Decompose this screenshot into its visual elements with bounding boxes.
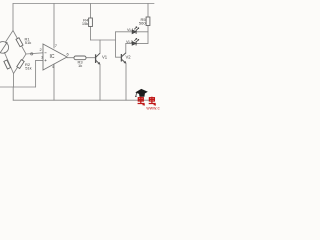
wire top supply rail [13,3,154,5]
wire bridge bottom drop [13,74,15,88]
wire bridge upper-right edge [13,31,26,55]
wire VL1 right lead [136,31,148,33]
resistor RP lower-left [4,60,11,69]
LED VL2 [132,38,139,45]
transistor V2 [121,53,126,64]
svg-text:V2: V2 [126,55,132,60]
label R1 value [25,36,32,45]
resistor R4 [89,18,93,27]
wire bottom ground rail [13,99,149,101]
label R2 value [25,62,32,71]
svg-text:3: 3 [41,55,44,60]
wire V2 base drop [116,32,122,57]
svg-text:15k: 15k [82,21,88,26]
wire R3 to V1 base [86,57,96,59]
wire bridge lower-right edge [14,54,27,74]
watermark red character 1 [138,97,145,105]
svg-text:51k: 51k [25,66,31,71]
svg-text:1k: 1k [78,63,82,68]
wire R5 top lead [147,4,149,18]
svg-text:560: 560 [139,21,146,26]
sensor RG circle [0,42,9,54]
svg-text:VL1: VL1 [127,28,134,32]
wire R4 top lead [90,4,92,19]
wire op-amp output [67,57,74,59]
wire V2 emitter drop [125,63,127,100]
label R4 value [82,18,89,27]
wire V1 collector riser [99,40,101,53]
wire horizontal feedback line [0,86,36,88]
svg-text:www.cc: www.cc [146,106,160,110]
transistor V1 [96,53,100,64]
wire VL2 right lead [136,42,148,44]
wire R4 bottom lead [90,27,92,41]
watermark red character 2 [149,97,156,105]
wire collector node rail [91,39,116,41]
wire pin3 input [36,59,43,61]
wire V2 collector riser [125,43,127,52]
wire R5 bottom lead [147,26,149,44]
watermark graduation cap [135,89,148,97]
wire left drop to bridge top [12,4,14,32]
label R3 value [78,59,84,68]
wire bridge upper-left edge [5,31,13,43]
svg-text:V1: V1 [102,55,108,60]
svg-text:2: 2 [40,47,43,52]
wire VL1 left lead [116,31,133,33]
LED VL1 [132,27,139,34]
svg-text:51k: 51k [25,40,31,45]
wire bridge lower-left edge [4,52,13,73]
node A bridge right [31,53,33,55]
wire pin3 riser [35,60,37,87]
wire VL2 left lead [126,42,132,44]
wire V1 emitter drop [99,64,101,100]
svg-text:4: 4 [52,64,55,69]
op-amp IC [43,44,67,70]
resistor R1 [16,38,23,47]
svg-text:VL2: VL2 [126,40,133,44]
resistor R5 [146,17,150,26]
label R5 value [139,17,146,26]
svg-text:7: 7 [55,43,58,48]
resistor R3 [74,56,86,60]
wire ground corner drop [12,87,14,100]
svg-text:IC: IC [50,54,55,60]
wire pin4 drop to ground [53,64,55,100]
resistor R2 [17,60,24,69]
svg-text:6: 6 [67,52,70,57]
wire pin2 input from bridge node [26,53,43,54]
wire pin7 supply drop [53,4,55,49]
